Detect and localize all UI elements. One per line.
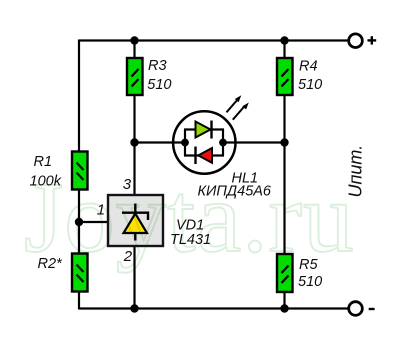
- wire LED row left: [135, 141, 186, 143]
- wire bottom rail: [79, 307, 348, 309]
- junction LED row right: [280, 138, 288, 146]
- svg-text:R4: R4: [299, 59, 318, 75]
- wire right column R5 bottom: [283, 292, 285, 309]
- wire right column R4 top: [283, 41, 285, 59]
- LED red diode: [196, 147, 213, 165]
- resistor R3: [127, 58, 143, 95]
- junction top R4: [280, 36, 288, 44]
- resistor R2: [72, 254, 88, 292]
- terminal minus: [349, 302, 375, 316]
- svg-text:R3: R3: [148, 58, 167, 74]
- wire LED row right: [223, 141, 285, 143]
- wire left column lower: [78, 292, 80, 310]
- wire left column upper: [78, 40, 80, 153]
- resistor R4: [277, 58, 293, 95]
- svg-text:510: 510: [147, 77, 171, 93]
- svg-text:510: 510: [298, 77, 322, 93]
- wire center column R3 bottom to TL431: [133, 95, 135, 194]
- junction bottom R5: [280, 304, 288, 312]
- svg-text:510: 510: [298, 274, 322, 290]
- LED emission arrow 2: [233, 103, 249, 120]
- terminal plus: [349, 34, 377, 48]
- resistor R5: [277, 254, 293, 292]
- LED emission arrow 1: [227, 95, 242, 112]
- TL431 symbol: [122, 204, 148, 241]
- TL431 box U VD1: [108, 195, 163, 246]
- junction bottom center: [130, 304, 138, 312]
- wire TL431 pin1: [79, 221, 108, 223]
- wire center column R3 top: [133, 41, 135, 59]
- wire right column R4 bottom to R5 top: [283, 95, 285, 254]
- junction R1 R2 pin1: [75, 218, 83, 226]
- wire top rail: [79, 39, 348, 41]
- junction LED row left: [130, 138, 138, 146]
- LED green diode: [196, 121, 212, 139]
- LED envelope circle HL1: [173, 111, 235, 173]
- watermark Joyta.ru: [24, 167, 413, 268]
- wire left column middle: [78, 189, 80, 254]
- junction LED inner right: [219, 139, 227, 147]
- resistor R1: [72, 152, 88, 190]
- wire TL431 pin2 to bottom rail: [133, 247, 135, 309]
- junction LED inner left: [181, 139, 189, 147]
- LED inner bridge wires: [184, 130, 224, 156]
- junction top R3: [130, 36, 138, 44]
